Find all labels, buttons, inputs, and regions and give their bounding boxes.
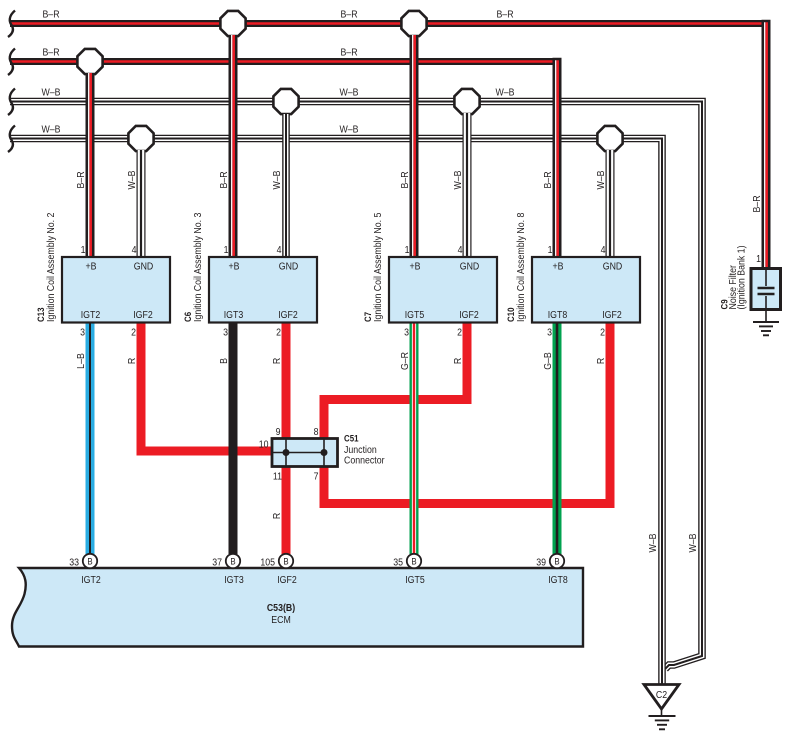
wire W-B to coil No.3 GND [282, 114, 290, 258]
wire L-B coil No.2 IGT2 to ECM [86, 320, 95, 554]
svg-text:W–B: W–B [41, 123, 60, 135]
svg-text:3: 3 [547, 326, 552, 338]
svg-text:8: 8 [314, 425, 319, 437]
svg-text:2: 2 [600, 326, 605, 338]
C9 capacitor lead top [765, 270, 767, 286]
svg-text:B: B [230, 556, 236, 567]
svg-text:3: 3 [80, 326, 85, 338]
ECM pin 35 circle [407, 554, 421, 568]
junction node on bus2 at x=90 [77, 49, 102, 74]
wire W-B to coil No.2 GND [137, 150, 146, 258]
svg-text:4: 4 [277, 243, 282, 255]
svg-text:2: 2 [276, 326, 281, 338]
wire B-R to coil No.3 +B [229, 35, 238, 258]
junction node on bus4 at x=141 [128, 126, 153, 151]
svg-text:R: R [451, 358, 463, 365]
wire B-R bus 1 horizontal [10, 20, 771, 27]
svg-text:B–R: B–R [541, 171, 553, 188]
svg-text:GND: GND [460, 260, 480, 272]
wire W-B to coil No.8 GND [606, 150, 615, 258]
wire R coil No.3 IGF2 through junction to ECM IGF2 [282, 320, 291, 554]
C9 capacitor plate top [758, 287, 775, 290]
svg-text:R: R [270, 358, 282, 365]
C51 internal wire left [285, 439, 287, 467]
svg-text:1: 1 [548, 243, 553, 255]
svg-text:B–R: B–R [42, 46, 59, 58]
svg-text:3: 3 [223, 326, 228, 338]
svg-text:Connector: Connector [344, 454, 385, 466]
svg-text:B: B [554, 556, 560, 567]
svg-text:W–B: W–B [646, 533, 658, 552]
svg-text:IGT3: IGT3 [224, 308, 244, 320]
C9 capacitor plate bottom [758, 293, 775, 296]
wire B-R bus 1 drop to noise filter [762, 20, 771, 270]
svg-text:Ignition Coil Assembly No. 8: Ignition Coil Assembly No. 8 [514, 213, 526, 322]
wire R coil No.2 IGF2 to junction pin 10 [141, 320, 273, 451]
svg-text:IGT2: IGT2 [81, 308, 101, 320]
svg-text:G–R: G–R [398, 352, 410, 370]
svg-text:GND: GND [603, 260, 623, 272]
svg-text:W–B: W–B [41, 86, 60, 98]
ignition coil C13 box [62, 257, 170, 323]
svg-text:10: 10 [259, 438, 269, 450]
svg-text:B–R: B–R [340, 8, 357, 20]
wire B coil No.3 IGT3 to ECM [229, 320, 238, 554]
svg-text:3: 3 [404, 326, 409, 338]
bus 1 torn end [8, 11, 15, 38]
svg-text:R: R [125, 358, 137, 365]
svg-text:+B: +B [552, 260, 563, 272]
svg-text:B–R: B–R [750, 195, 762, 212]
svg-text:B: B [217, 358, 229, 364]
svg-text:11: 11 [273, 470, 282, 482]
ground symbol [649, 715, 676, 717]
wire R coil No.8 IGF2 to junction pin 7 [324, 320, 610, 504]
C51 internal wire right [323, 439, 325, 467]
ignition coil C7 box [389, 257, 497, 323]
svg-text:2: 2 [131, 326, 136, 338]
svg-text:GND: GND [279, 260, 299, 272]
svg-text:C53(B): C53(B) [267, 601, 295, 613]
svg-text:37: 37 [212, 556, 222, 568]
svg-text:B–R: B–R [496, 8, 513, 20]
wire B-R bus 2 drop to coil No.8 +B [553, 58, 562, 258]
svg-text:W–B: W–B [125, 170, 137, 189]
bus 3 torn end [8, 89, 15, 116]
svg-text:W–B: W–B [495, 86, 514, 98]
svg-text:(Ignition Bank 1): (Ignition Bank 1) [735, 246, 747, 310]
svg-text:B–R: B–R [398, 171, 410, 188]
svg-text:ECM: ECM [271, 613, 291, 625]
svg-text:1: 1 [224, 243, 229, 255]
C2 ground lead [661, 709, 663, 716]
svg-text:IGF2: IGF2 [602, 308, 622, 320]
wire B-R to coil No.5 +B [410, 35, 419, 258]
svg-text:+B: +B [228, 260, 239, 272]
wire G-R coil No.5 IGT5 to ECM [410, 320, 419, 554]
C9 ground [753, 321, 779, 323]
svg-text:C2: C2 [656, 688, 667, 700]
wire W-B bus 3 (to C2 right branch) [10, 102, 702, 669]
junction node on bus1 at x=233 [220, 11, 245, 36]
svg-text:IGF2: IGF2 [278, 308, 298, 320]
svg-text:B–R: B–R [74, 171, 86, 188]
svg-text:+B: +B [85, 260, 96, 272]
wire W-B to coil No.5 GND [463, 113, 472, 258]
svg-text:B–R: B–R [340, 46, 357, 58]
ECM C53(B) box [12, 568, 583, 647]
svg-text:1: 1 [405, 243, 410, 255]
svg-text:IGT5: IGT5 [405, 573, 425, 585]
svg-text:39: 39 [536, 556, 546, 568]
ECM pin 39 circle [550, 554, 564, 568]
connector C2 triangle [644, 685, 679, 710]
noise filter C9 box [751, 269, 781, 310]
C9 capacitor lead bottom [765, 296, 767, 322]
bus 4 torn end [8, 126, 15, 153]
ECM pin 37 circle [226, 554, 240, 568]
svg-text:4: 4 [601, 243, 606, 255]
svg-text:4: 4 [458, 243, 463, 255]
svg-text:R: R [594, 358, 606, 365]
svg-text:4: 4 [132, 243, 137, 255]
C51 internal bus [272, 452, 324, 454]
svg-text:7: 7 [314, 470, 319, 482]
svg-text:B–R: B–R [217, 171, 229, 188]
svg-text:9: 9 [276, 425, 281, 437]
svg-text:R: R [270, 513, 282, 520]
svg-text:IGF2: IGF2 [459, 308, 479, 320]
ECM pin 105 circle [279, 554, 293, 568]
svg-text:B: B [411, 556, 417, 567]
junction node on bus3 at x=286 [273, 89, 298, 114]
svg-text:Ignition Coil Assembly No. 2: Ignition Coil Assembly No. 2 [44, 213, 56, 322]
junction node on bus1 at x=414 [401, 11, 426, 36]
svg-text:W–B: W–B [339, 86, 358, 98]
junction node on bus4 at x=609 [597, 126, 622, 151]
C51 junction dot B [321, 449, 328, 456]
svg-text:IGF2: IGF2 [277, 573, 297, 585]
svg-text:Ignition Coil Assembly No. 5: Ignition Coil Assembly No. 5 [371, 213, 383, 322]
svg-text:W–B: W–B [594, 170, 606, 189]
svg-text:W–B: W–B [339, 123, 358, 135]
svg-text:GND: GND [134, 260, 154, 272]
svg-text:IGT5: IGT5 [405, 308, 425, 320]
svg-text:B: B [87, 556, 93, 567]
svg-text:G–B: G–B [541, 352, 553, 370]
wire B-R to coil No.2 +B [86, 73, 95, 258]
svg-text:W–B: W–B [451, 170, 463, 189]
wire G-B coil No.8 IGT8 to ECM [553, 320, 562, 554]
junction node on bus3 at x=465 [454, 89, 479, 114]
svg-text:IGT8: IGT8 [548, 308, 568, 320]
svg-text:2: 2 [457, 326, 462, 338]
svg-text:IGF2: IGF2 [133, 308, 153, 320]
bus 2 torn end [8, 49, 15, 76]
svg-text:+B: +B [409, 260, 420, 272]
wire B-R bus 2 horizontal [10, 58, 562, 65]
svg-text:Ignition Coil Assembly No. 3: Ignition Coil Assembly No. 3 [191, 213, 203, 322]
junction connector C51 box [272, 439, 338, 467]
svg-text:IGT8: IGT8 [548, 573, 568, 585]
svg-text:B–R: B–R [42, 8, 59, 20]
C51 junction dot A [283, 449, 290, 456]
svg-text:35: 35 [393, 556, 403, 568]
wire R coil No.5 IGF2 to junction pin 8 [324, 320, 467, 440]
svg-text:W–B: W–B [686, 533, 698, 552]
svg-text:L–B: L–B [74, 353, 86, 369]
svg-text:1: 1 [81, 243, 86, 255]
svg-text:IGT2: IGT2 [81, 573, 101, 585]
svg-text:W–B: W–B [270, 170, 282, 189]
svg-text:1: 1 [756, 252, 761, 264]
svg-text:C51: C51 [344, 433, 359, 444]
ECM pin 33 circle [83, 554, 97, 568]
svg-text:105: 105 [260, 556, 275, 568]
wire W-B bus 4 (to C2 left branch) [10, 139, 662, 685]
svg-text:33: 33 [69, 556, 79, 568]
ignition coil C10 box [532, 257, 640, 323]
ignition coil C6 box [209, 257, 317, 323]
svg-text:B: B [283, 556, 289, 567]
svg-text:IGT3: IGT3 [224, 573, 244, 585]
